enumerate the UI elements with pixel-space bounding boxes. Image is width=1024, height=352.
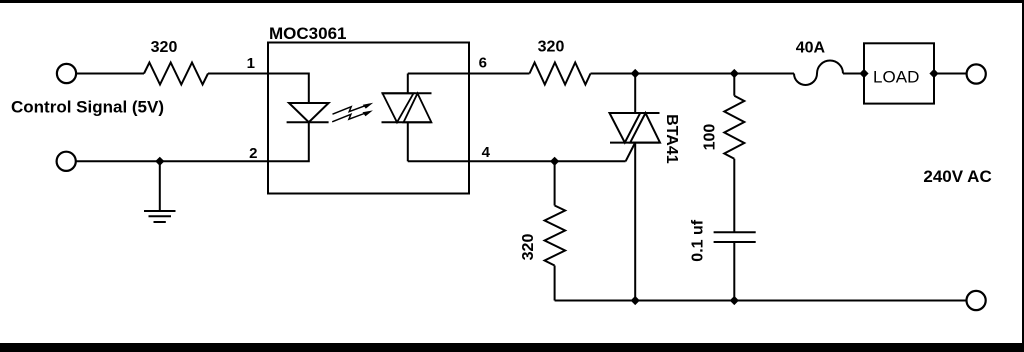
svg-text:40A: 40A — [796, 40, 826, 57]
wire LOAD to T3 — [934, 73, 967, 75]
svg-text:2: 2 — [249, 145, 257, 162]
LOAD box — [864, 43, 934, 103]
node rail-triac — [631, 296, 640, 305]
svg-text:6: 6 — [479, 55, 487, 72]
wire pin6 to R2 — [469, 73, 530, 75]
wire R4 to C1 — [733, 159, 735, 233]
bottom rail — [555, 300, 967, 302]
ground GND — [159, 161, 161, 211]
resistor R4 100 vertical — [733, 74, 735, 96]
top border bar — [0, 0, 1024, 3]
terminal T3 (line) — [967, 64, 986, 83]
wire R3 to rail — [554, 266, 556, 301]
gate diagonal — [626, 144, 635, 162]
svg-text:1: 1 — [247, 55, 255, 72]
wire T1 to R1 — [76, 73, 144, 75]
light arrow upper — [333, 104, 369, 114]
wire C1 to rail — [733, 242, 735, 301]
junction ground node — [155, 157, 164, 166]
capacitor C1 0.1uf — [714, 231, 756, 233]
svg-text:320: 320 — [520, 234, 537, 261]
wire pin6 inside — [408, 73, 469, 75]
wire pin4 to junction — [469, 160, 626, 162]
terminal T2 (control -) — [57, 152, 76, 171]
wire N1 down to triac Q1 — [634, 74, 636, 114]
node N1 — [631, 69, 640, 78]
node at LOAD right — [929, 69, 938, 78]
photo-triac of U1 — [407, 74, 409, 94]
svg-text:4: 4 — [482, 144, 491, 161]
wire fuse to LOAD — [843, 73, 864, 75]
svg-text:BTA41: BTA41 — [663, 114, 680, 164]
triac MT2 wire to rail — [634, 143, 636, 301]
wire R1 to pin1 — [208, 73, 268, 75]
wire LED to pin2 — [268, 122, 309, 161]
svg-text:MOC3061: MOC3061 — [269, 24, 346, 43]
triac Q1 BTA41 — [610, 112, 660, 114]
wire T2 to pin2 — [76, 160, 268, 162]
resistor R2 320 — [530, 63, 591, 85]
right border line — [1022, 0, 1024, 352]
fuse F1 40A — [794, 61, 843, 85]
node at LOAD left — [859, 69, 868, 78]
wire pin4 inside — [408, 160, 469, 162]
svg-text:320: 320 — [151, 39, 178, 56]
svg-text:Control Signal (5V): Control Signal (5V) — [11, 98, 164, 117]
svg-text:320: 320 — [538, 39, 565, 56]
svg-text:LOAD: LOAD — [873, 67, 919, 86]
svg-text:240V AC: 240V AC — [923, 167, 991, 186]
terminal T4 (neutral) — [967, 291, 986, 310]
wire N1 to node N2 — [635, 73, 734, 75]
svg-text:0.1 uf: 0.1 uf — [689, 219, 706, 261]
bottom border bar — [0, 343, 1024, 352]
terminal T1 (control +) — [57, 64, 76, 83]
resistor R1 320 — [144, 63, 208, 85]
resistor R3 320 vertical — [545, 206, 566, 266]
wire pin1 inside — [268, 74, 309, 104]
junction on pin4 wire — [550, 157, 559, 166]
wire junction down to R3 — [554, 161, 556, 205]
opto-isolator U1 MOC3061 body — [268, 43, 469, 194]
wire R2 to node N1 — [591, 73, 636, 75]
wire N2 to fuse — [734, 73, 794, 75]
svg-text:100: 100 — [701, 124, 718, 151]
LED D1 — [289, 103, 329, 122]
node rail-cap — [730, 296, 739, 305]
node N2 — [730, 69, 739, 78]
light arrow lower — [332, 112, 368, 122]
